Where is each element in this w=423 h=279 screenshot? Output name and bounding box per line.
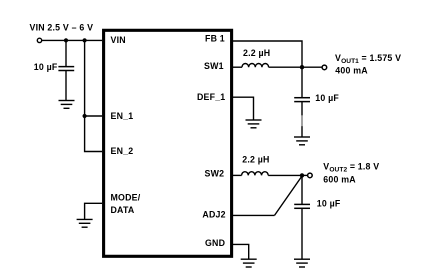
wire C2 top: [301, 175, 303, 204]
svg-text:2.2 µH: 2.2 µH: [242, 154, 269, 164]
wire C2 bottom: [301, 208, 303, 259]
ground (input cap): [59, 101, 75, 109]
input terminal: [37, 38, 41, 42]
wire cap branch upper: [65, 40, 67, 66]
svg-text:DEF_1: DEF_1: [197, 92, 225, 102]
svg-text:400 mA: 400 mA: [335, 65, 368, 75]
wire FB1 to VOUT1 node: [233, 41, 302, 67]
svg-text:VIN 2.5 V – 6 V: VIN 2.5 V – 6 V: [30, 23, 94, 33]
IC U1 TPS6240x: [104, 30, 232, 256]
output terminal VOUT1: [322, 65, 327, 70]
svg-text:10 µF: 10 µF: [34, 62, 58, 72]
svg-text:10 µF: 10 µF: [315, 93, 339, 103]
wire C1 bottom: [301, 102, 303, 137]
node input-cap junction: [64, 38, 68, 42]
ground (DEF_1): [246, 120, 262, 128]
svg-text:VIN: VIN: [111, 35, 126, 45]
svg-text:GND: GND: [205, 238, 225, 248]
node VOUT1: [300, 65, 304, 69]
wire inductor L2 to node: [268, 174, 302, 176]
svg-text:600 mA: 600 mA: [323, 175, 356, 185]
gray artifact on C1 wire: [301, 115, 303, 126]
wire ADJ2 horizontal: [233, 214, 275, 216]
wire ADJ2 diagonal to VOUT2 node: [275, 176, 303, 215]
node EN_1 junction: [83, 114, 87, 118]
svg-text:ADJ2: ADJ2: [202, 209, 225, 219]
wire EN_1: [85, 115, 102, 117]
ground (C1): [294, 137, 310, 145]
capacitor C1 10 uF: [294, 98, 310, 102]
wire node to VOUT1 terminal: [302, 66, 322, 68]
ground (C2): [294, 259, 310, 267]
inductor L2 2.2 uH: [242, 172, 269, 176]
ground (MODE/DATA): [77, 219, 93, 227]
capacitor C2 10 uF: [294, 204, 310, 208]
wire inductor L1 to node: [269, 66, 302, 68]
svg-text:2.2 µH: 2.2 µH: [243, 48, 270, 58]
ground (GND pin): [241, 259, 257, 267]
inductor L1 2.2 uH: [242, 63, 269, 67]
wire SW1 to inductor: [233, 66, 242, 68]
node VOUT2: [300, 173, 304, 177]
wire DEF_1: [233, 97, 254, 120]
svg-text:SW1: SW1: [204, 61, 224, 71]
svg-text:MODE/: MODE/: [111, 193, 141, 203]
wire node to VOUT2 terminal: [302, 174, 307, 176]
svg-text:SW2: SW2: [205, 169, 225, 179]
wire GND pin: [233, 244, 249, 259]
wire MODE/DATA: [85, 203, 102, 219]
svg-text:EN_1: EN_1: [111, 111, 134, 121]
wire SW2 to inductor: [233, 174, 242, 176]
wire input to VIN pin: [42, 39, 102, 41]
wire C1 top: [301, 67, 303, 98]
svg-text:10 µF: 10 µF: [317, 198, 341, 208]
svg-text:EN_2: EN_2: [111, 146, 134, 156]
svg-text:FB 1: FB 1: [205, 34, 225, 44]
capacitor CIN 10 uF: [58, 67, 74, 71]
output terminal VOUT2: [308, 173, 313, 178]
svg-text:DATA: DATA: [111, 205, 135, 215]
wire cap branch lower: [65, 71, 67, 101]
node EN branch junction: [83, 38, 87, 42]
wire EN branch vertical: [85, 40, 102, 151]
